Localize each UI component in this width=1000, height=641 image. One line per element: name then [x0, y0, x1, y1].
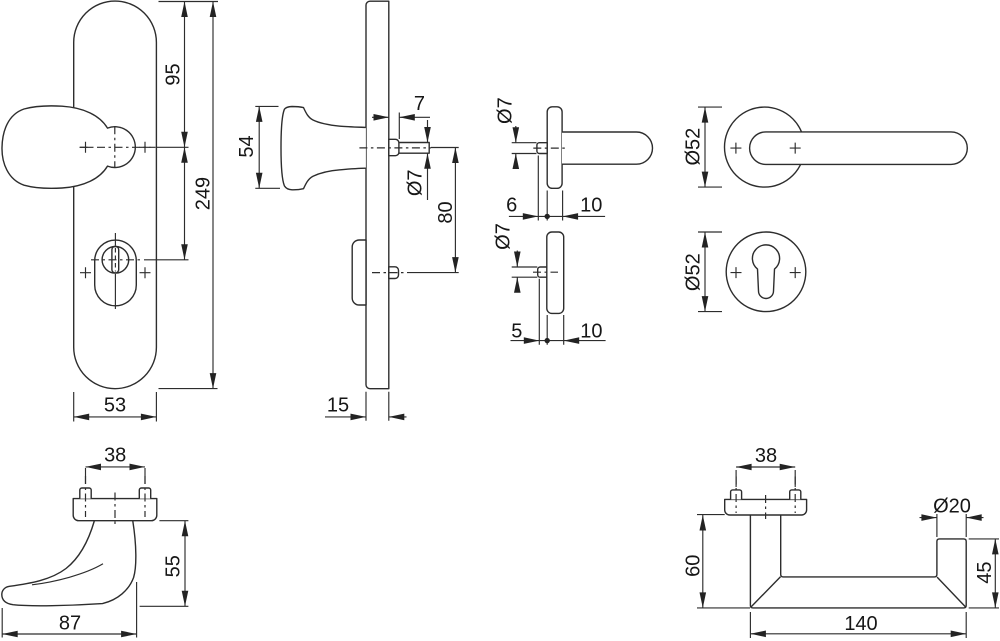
dimension 80: [407, 148, 459, 273]
PART2: plate side view: [236, 1, 459, 421]
plate profile: [366, 1, 389, 389]
screw cross left (knob): [80, 142, 91, 153]
cylinder centerline: [372, 272, 407, 274]
svg-text:38: 38: [104, 445, 126, 467]
dimension chain 6 / 10: [509, 156, 605, 221]
cylinder circle: [102, 246, 129, 273]
stud centerline right: [144, 476, 146, 517]
screw stud left: [80, 488, 91, 499]
PART4: key rosette side view: [493, 223, 606, 345]
svg-text:249: 249: [193, 177, 215, 210]
rose profile: [547, 232, 564, 313]
dimension Ø7: [512, 251, 538, 291]
dimension 87: [2, 582, 136, 638]
cylinder bump profile: [352, 240, 366, 305]
svg-text:140: 140: [844, 613, 877, 635]
long plate outline: [74, 1, 157, 389]
svg-text:Ø52: Ø52: [683, 253, 705, 291]
cylinder oval: [95, 240, 137, 306]
dimension chain 5 / 10: [511, 279, 606, 345]
screw cross right (knob): [140, 142, 151, 153]
svg-text:Ø7: Ø7: [495, 97, 517, 124]
spindle centerline: [359, 147, 431, 149]
dimension 45: [969, 539, 999, 608]
dimension 249 line: [212, 2, 214, 389]
dimension 60: [697, 515, 750, 608]
mounting bracket: [73, 499, 157, 521]
svg-text:80: 80: [435, 201, 457, 223]
screw cross left (cylinder): [80, 267, 91, 278]
rose profile: [547, 107, 562, 189]
dimension 15: [325, 392, 407, 421]
svg-text:55: 55: [163, 555, 185, 577]
cylinder extension line: [144, 259, 189, 261]
mounting bracket: [725, 499, 807, 515]
dimension 38: [86, 467, 146, 484]
svg-text:Ø52: Ø52: [683, 128, 705, 166]
svg-text:60: 60: [683, 555, 705, 577]
knob front view: [2, 106, 135, 188]
screw cross left: [730, 143, 741, 154]
svg-text:87: 87: [59, 613, 81, 635]
dimension 7 (nut): [372, 113, 430, 140]
spindle rod: [399, 143, 429, 154]
PART3: lever rosette side view: [495, 97, 653, 220]
svg-text:Ø7: Ø7: [493, 223, 515, 250]
PART8: lever top view: [683, 445, 1000, 638]
knob centerline horizontal: [80, 146, 156, 148]
PART5: lever on rose front view: [683, 107, 968, 187]
svg-text:38: 38: [755, 445, 777, 467]
screw cross left: [731, 267, 742, 278]
screw stud right: [790, 490, 801, 500]
svg-text:54: 54: [236, 135, 258, 157]
knob neck and grip: [2, 521, 136, 606]
PART6: key rose front view: [683, 232, 806, 312]
svg-text:95: 95: [163, 63, 185, 85]
knob profile: [281, 107, 366, 190]
grip crease line: [32, 564, 103, 585]
dimension 140: [750, 612, 966, 638]
dimension 55: [140, 521, 189, 607]
bracket centerline: [114, 493, 116, 528]
bracket centerline: [765, 495, 767, 519]
spindle stub: [537, 143, 547, 154]
cylinder horizontal centerline: [91, 259, 143, 261]
screw stud left: [731, 490, 742, 500]
svg-text:5: 5: [511, 321, 522, 343]
top extension line: [159, 1, 219, 3]
svg-text:10: 10: [580, 321, 602, 343]
rose circle: [725, 107, 805, 187]
PART1: security plate front view: [2, 1, 218, 421]
dimension Ø52: [698, 107, 722, 187]
cylinder vertical centerline: [114, 233, 116, 309]
dimension Ø7 (spindle): [427, 120, 429, 200]
screw cross right (cylinder): [140, 267, 151, 278]
screw cross right (spindle): [790, 143, 801, 154]
cylinder nut: [389, 267, 399, 279]
svg-text:Ø20: Ø20: [933, 496, 971, 518]
knob extension line: [156, 146, 189, 148]
dimension Ø20: [920, 514, 984, 537]
rose circle: [726, 232, 806, 312]
spindle centerline: [533, 147, 565, 149]
spindle nut: [389, 139, 399, 155]
dimension 54: [255, 106, 280, 188]
knob centerline vertical: [114, 126, 116, 168]
lever profile: [562, 132, 653, 164]
cylinder keyway slot: [112, 246, 119, 273]
svg-text:7: 7: [414, 93, 425, 115]
dimension 38: [736, 467, 795, 487]
mitre seam right: [937, 577, 966, 607]
svg-text:Ø7: Ø7: [405, 169, 427, 196]
svg-text:10: 10: [580, 194, 602, 216]
screw cross right: [790, 267, 801, 278]
svg-text:53: 53: [104, 395, 126, 417]
dimension Ø52: [698, 232, 722, 312]
dimension Ø7: [512, 126, 537, 166]
stud centerline left: [85, 476, 87, 517]
svg-text:45: 45: [974, 561, 996, 583]
bottom extension line: [159, 388, 218, 390]
screw stud right: [139, 488, 150, 499]
euro profile cylinder hole: [752, 245, 779, 299]
svg-text:15: 15: [327, 395, 349, 417]
PART7: knob side view: [2, 445, 189, 638]
handle outline (top view): [750, 516, 966, 608]
svg-text:6: 6: [506, 194, 517, 216]
cylinder centerline: [533, 271, 558, 273]
stud centerline right: [794, 477, 796, 514]
dimension chain 95 line: [184, 2, 186, 260]
lever front view: [750, 132, 968, 165]
dimension 53: [74, 392, 157, 422]
cylinder stub: [538, 267, 547, 277]
mitre seam left: [751, 577, 780, 607]
stud centerline left: [735, 477, 737, 514]
